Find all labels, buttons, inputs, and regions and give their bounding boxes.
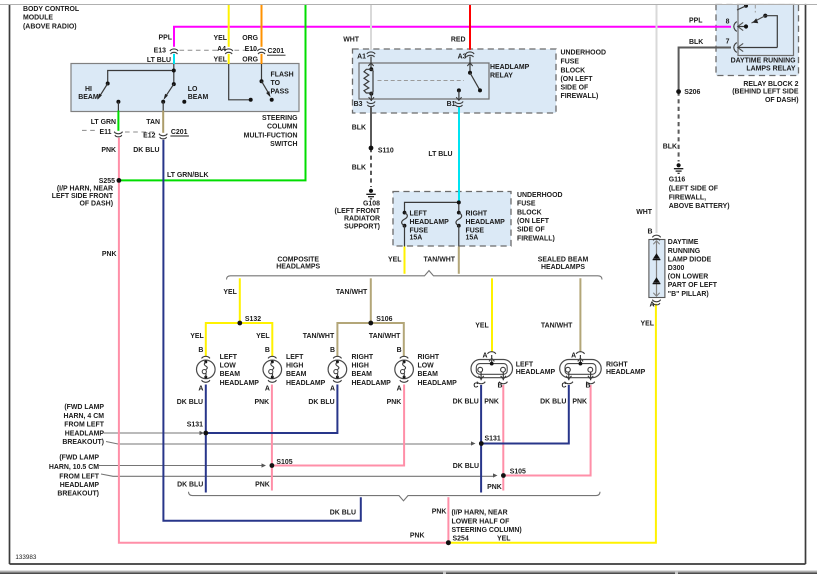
headlamp relay B1 contact and lead (456, 88, 461, 100)
svg-text:LAMP DIODE: LAMP DIODE (668, 256, 712, 263)
svg-text:YEL: YEL (641, 321, 655, 328)
svg-text:(BEHIND LEFT SIDE: (BEHIND LEFT SIDE (732, 89, 799, 96)
wire YEL S132 to left low and left high bulbs (206, 323, 272, 357)
splice S131 composite (203, 431, 208, 436)
svg-text:LOW: LOW (220, 363, 237, 370)
svg-text:E13: E13 (154, 48, 166, 55)
connector A1 (367, 52, 376, 57)
right sealed beam headlamp (560, 352, 602, 384)
headlamp relay coil (364, 67, 373, 95)
wire TAN/WHT bracket to right sealed headlamp A (579, 278, 581, 352)
wire PPL from BCM to DRL relay pin 8 (174, 27, 731, 47)
svg-text:PNK: PNK (432, 509, 447, 516)
DRL relay top contact (cut off) (737, 4, 755, 13)
svg-text:FUSE: FUSE (466, 227, 485, 234)
svg-text:HEADLAMP: HEADLAMP (490, 64, 530, 71)
wire TAN/WHT S106 to right high and right low bulbs (337, 323, 403, 357)
svg-text:A: A (482, 352, 487, 359)
daytime running lamps relay inner box (738, 4, 794, 55)
splice S105 composite (270, 463, 275, 468)
composite/sealed group bracket (top) (227, 271, 603, 280)
headlamp relay inner box (359, 63, 489, 99)
svg-text:YEL: YEL (475, 322, 489, 329)
svg-text:(ON LEFT: (ON LEFT (517, 218, 550, 225)
headlamp relay switch arm (470, 73, 482, 93)
svg-text:E11: E11 (100, 129, 112, 136)
svg-text:UNDERHOOD: UNDERHOOD (517, 192, 562, 199)
splice S131 sealed (479, 441, 484, 446)
splice S206 (676, 89, 681, 94)
wire YEL S254 to diode A (450, 304, 656, 543)
svg-text:(LEFT FRONT: (LEFT FRONT (335, 208, 381, 215)
svg-text:LT BLU: LT BLU (147, 57, 171, 64)
flash-to-pass switch arm (262, 81, 274, 102)
harness pointer line to S131 (sealed) (106, 441, 476, 445)
svg-text:TAN/WHT: TAN/WHT (541, 322, 573, 329)
svg-text:D300: D300 (668, 265, 685, 272)
svg-text:S110: S110 (378, 148, 394, 155)
C201 dashed connector line (E13/A4/E10) (180, 49, 257, 51)
svg-text:C: C (561, 383, 566, 390)
svg-text:BLOCK: BLOCK (517, 209, 542, 216)
svg-text:PPL: PPL (159, 35, 173, 42)
wire PNK brace to S254 (447, 497, 449, 543)
svg-text:(ON LEFT: (ON LEFT (561, 76, 594, 83)
wire DK BLU E12 down right and up to brace (163, 140, 360, 521)
wire RED into relay A3 (469, 5, 471, 50)
svg-text:WHT: WHT (343, 37, 360, 44)
svg-text:G116: G116 (669, 177, 686, 184)
svg-text:RELAY: RELAY (490, 73, 513, 80)
left headlamp fuse 15A (402, 211, 408, 247)
svg-text:BLOCK: BLOCK (561, 67, 586, 74)
headlamp relay B3 lead (369, 94, 374, 101)
svg-text:ABOVE BATTERY): ABOVE BATTERY) (669, 203, 730, 210)
svg-text:BREAKOUT): BREAKOUT) (57, 490, 99, 497)
svg-text:LEFT: LEFT (286, 354, 304, 361)
svg-text:LEFT: LEFT (410, 211, 428, 218)
left low beam headlamp bulb (197, 356, 216, 382)
svg-text:HEADLAMP: HEADLAMP (65, 430, 105, 437)
svg-text:PNK: PNK (255, 482, 270, 489)
underhood fuse block (headlamp relay) dashed box (353, 49, 557, 113)
wire YEL A4 to switch box (228, 54, 230, 64)
svg-text:S254: S254 (453, 536, 469, 543)
svg-text:HEADLAMP: HEADLAMP (606, 369, 646, 376)
svg-text:FLASH: FLASH (271, 71, 294, 78)
harness pointer line to S105 (composite) (99, 463, 266, 467)
svg-text:RIGHT: RIGHT (418, 354, 440, 361)
connector diode A (652, 300, 660, 305)
wire PNK S105 to right sealed B (505, 385, 591, 476)
svg-text:BEAM: BEAM (418, 371, 439, 378)
wire PNK E11 to S255 to bottom to S254 (119, 138, 446, 543)
svg-text:A: A (265, 385, 270, 392)
svg-text:(LEFT SIDE OF: (LEFT SIDE OF (669, 186, 718, 193)
svg-text:PNK: PNK (101, 147, 116, 154)
connector E11 (114, 132, 123, 137)
svg-text:S106: S106 (376, 316, 392, 323)
svg-text:PASS: PASS (271, 88, 290, 95)
svg-text:S132: S132 (245, 316, 261, 323)
svg-text:TAN/WHT: TAN/WHT (336, 289, 368, 296)
svg-text:DK BLU: DK BLU (308, 399, 334, 406)
svg-text:OF DASH): OF DASH) (79, 201, 113, 208)
relay block 2 / daytime running lamps relay dashed box (716, 4, 799, 75)
svg-text:B: B (647, 228, 652, 235)
wire TAN/WHT bracket to S106 (370, 278, 372, 323)
svg-text:DK BLU: DK BLU (453, 463, 479, 470)
svg-text:B1: B1 (447, 101, 456, 108)
label C201 top (267, 48, 286, 55)
svg-text:HARN, 10.5 CM: HARN, 10.5 CM (49, 464, 99, 471)
svg-text:B: B (497, 383, 502, 390)
svg-text:HIGH: HIGH (286, 363, 303, 370)
headlamp relay A1 pin lead (368, 57, 373, 68)
svg-text:(ON LOWER: (ON LOWER (668, 274, 708, 281)
svg-text:RADIATOR: RADIATOR (344, 216, 380, 223)
wire BLK DRL pin7 to S206 (679, 48, 731, 92)
svg-text:DK BLU: DK BLU (330, 510, 356, 517)
svg-text:PNK: PNK (487, 484, 502, 491)
svg-text:S105: S105 (510, 469, 526, 476)
svg-text:15A: 15A (410, 235, 423, 242)
svg-text:LT GRN: LT GRN (91, 119, 116, 126)
svg-text:A4: A4 (217, 46, 226, 53)
wire WHT into relay A1 (370, 5, 372, 50)
daytime running lamp diode D300 box (649, 240, 665, 298)
svg-text:DK BLU: DK BLU (133, 147, 159, 154)
wire YEL fuse to bracket (404, 247, 406, 274)
svg-text:RIGHT: RIGHT (606, 362, 628, 369)
wire LT GRN/BLK from top to S255 (120, 5, 306, 180)
connector B3 (367, 102, 376, 107)
svg-text:FIREWALL): FIREWALL) (561, 93, 599, 100)
wire LT BLU E13 to switch box (173, 54, 175, 64)
svg-text:B: B (397, 347, 402, 354)
svg-text:COLUMN: COLUMN (267, 124, 297, 131)
flash-to-pass pivot from ORG (260, 64, 264, 83)
svg-text:SWITCH: SWITCH (270, 141, 297, 148)
svg-text:HI: HI (85, 86, 92, 93)
wire YEL into A4 (228, 5, 230, 47)
wire DK BLU left low beam to S131 to brace (205, 385, 207, 493)
DRL relay internal switch (744, 14, 777, 48)
svg-text:A: A (571, 352, 576, 359)
svg-text:LOWER HALF OF: LOWER HALF OF (452, 518, 510, 525)
steering column multi-function switch box (71, 64, 299, 112)
viewport top boundary line (0, 0, 817, 5)
svg-text:BREAKOUT): BREAKOUT) (62, 439, 104, 446)
ground G108 (366, 189, 375, 199)
wire BLK dashed S206 to G116 (678, 92, 680, 162)
svg-text:RIGHT: RIGHT (466, 211, 488, 218)
svg-text:LT GRN/BLK: LT GRN/BLK (167, 172, 209, 179)
svg-text:8: 8 (726, 19, 730, 26)
svg-text:YEL: YEL (223, 289, 237, 296)
headlamp relay A3 pin lead (467, 57, 472, 75)
connector A3 (466, 52, 475, 57)
fuse block feed junction (405, 200, 461, 211)
svg-text:YEL: YEL (214, 57, 228, 64)
lo beam unused contact (182, 100, 186, 104)
underhood fuse block (fuses) dashed box (393, 192, 511, 247)
diode D300 internals (653, 241, 661, 296)
wire DK BLU S131 to right high beam (207, 385, 338, 434)
svg-text:BEAM: BEAM (188, 94, 209, 101)
svg-text:S206: S206 (684, 89, 700, 96)
svg-text:E12: E12 (143, 133, 155, 140)
svg-text:HEADLAMPS: HEADLAMPS (276, 263, 320, 270)
svg-text:LT BLU: LT BLU (428, 151, 452, 158)
wire YEL bracket to left sealed headlamp A (491, 278, 493, 352)
svg-text:SUPPORT): SUPPORT) (344, 223, 380, 230)
svg-text:HEADLAMP: HEADLAMP (220, 380, 260, 387)
svg-text:HEADLAMP: HEADLAMP (352, 380, 392, 387)
svg-text:RUNNING: RUNNING (668, 248, 700, 255)
svg-text:B: B (585, 383, 590, 390)
svg-text:B: B (265, 347, 270, 354)
svg-text:BEAM: BEAM (220, 371, 241, 378)
svg-text:RIGHT: RIGHT (352, 354, 374, 361)
svg-text:G108: G108 (363, 200, 380, 207)
flash-to-pass yellow feed path (229, 64, 253, 102)
svg-text:TAN/WHT: TAN/WHT (303, 333, 335, 340)
svg-text:B: B (330, 347, 335, 354)
hi beam switch pivot (106, 82, 110, 86)
svg-text:HEADLAMP: HEADLAMP (60, 482, 100, 489)
svg-text:A: A (649, 301, 654, 308)
window bottom bar (0, 570, 817, 574)
svg-text:LEFT: LEFT (516, 362, 534, 369)
wire BLK dashed S110 to G108 (370, 148, 372, 187)
svg-text:UNDERHOOD: UNDERHOOD (561, 49, 606, 56)
svg-text:PNK: PNK (572, 398, 587, 405)
svg-text:SIDE OF: SIDE OF (561, 84, 589, 91)
svg-text:ORG: ORG (242, 57, 258, 64)
svg-text:HIGH: HIGH (352, 363, 369, 370)
connector B1 (455, 102, 464, 107)
svg-text:TAN: TAN (146, 119, 160, 126)
wire BLK relay B3 to S110 (370, 107, 372, 148)
svg-text:HEADLAMPS: HEADLAMPS (541, 264, 585, 271)
connector E10 (257, 49, 265, 54)
svg-text:YEL: YEL (388, 256, 402, 263)
right low beam headlamp bulb (395, 356, 414, 382)
harness pointer line to S105 (sealed) (101, 473, 498, 477)
svg-text:FUSE: FUSE (561, 58, 580, 65)
svg-text:LO: LO (188, 86, 198, 93)
svg-text:RED: RED (451, 37, 466, 44)
wire LT BLU relay B1 to fuse block (458, 107, 460, 202)
wire DK BLU S131 to right sealed C (483, 385, 569, 444)
svg-text:WHT: WHT (636, 209, 653, 216)
wire PNK S105 to right low beam (273, 385, 404, 466)
splice S106 (368, 321, 373, 326)
connector A4 (225, 49, 233, 54)
svg-text:C: C (473, 383, 478, 390)
svg-text:LAMPS RELAY: LAMPS RELAY (746, 65, 795, 72)
svg-text:PNK: PNK (387, 399, 402, 406)
svg-text:BEAM: BEAM (78, 94, 99, 101)
svg-text:BLK: BLK (689, 39, 703, 46)
svg-text:C201: C201 (171, 129, 188, 136)
DRL relay pin 8 connector (734, 22, 746, 32)
node switch feed junction (172, 69, 176, 73)
splice S254 (446, 540, 451, 545)
svg-text:B: B (198, 347, 203, 354)
svg-text:DK BLU: DK BLU (177, 399, 203, 406)
svg-text:YEL: YEL (497, 536, 511, 543)
wire TAN/WHT fuse to bracket (458, 247, 460, 274)
svg-text:SIDE OF: SIDE OF (517, 227, 545, 234)
svg-text:15A: 15A (466, 235, 479, 242)
left high beam headlamp bulb (263, 356, 282, 382)
svg-text:BEAM: BEAM (286, 371, 307, 378)
lo beam switch pivot (172, 82, 176, 86)
hi beam switch arm (98, 84, 108, 100)
svg-text:PNK: PNK (254, 399, 269, 406)
lo beam switch arm (164, 84, 174, 100)
wire PNK left high beam to S105 to brace (271, 385, 273, 491)
right high beam headlamp bulb (328, 356, 347, 382)
label C201 bottom (170, 129, 189, 136)
svg-text:HEADLAMP: HEADLAMP (286, 380, 326, 387)
splice S255 (117, 178, 122, 183)
svg-text:C201: C201 (268, 48, 285, 55)
svg-text:A: A (397, 385, 402, 392)
wire YEL bracket to S132 (239, 278, 241, 323)
svg-text:HEADLAMP: HEADLAMP (418, 380, 458, 387)
lo beam output contact (161, 100, 165, 111)
splice S105 sealed (501, 473, 506, 478)
svg-text:7: 7 (726, 39, 730, 46)
wire DK BLU left sealed C to S131 to brace (480, 385, 482, 493)
splice S132 (237, 321, 242, 326)
svg-text:"B" PILLAR): "B" PILLAR) (668, 291, 709, 298)
svg-text:YEL: YEL (190, 333, 204, 340)
DRL relay pin 7 connector (734, 43, 777, 53)
svg-text:BEAM: BEAM (352, 371, 373, 378)
ground G116 (674, 163, 683, 173)
svg-text:E10: E10 (245, 46, 257, 53)
svg-text:BLK: BLK (663, 143, 677, 150)
svg-text:ORG: ORG (242, 35, 258, 42)
splice S110 (369, 146, 374, 151)
svg-text:TO: TO (271, 80, 281, 87)
connector diode B (652, 235, 660, 240)
svg-text:BODY CONTROL: BODY CONTROL (23, 6, 80, 13)
svg-text:STEERING COLUMN): STEERING COLUMN) (452, 527, 522, 534)
svg-text:FIREWALL): FIREWALL) (517, 235, 555, 242)
svg-text:(ABOVE RADIO): (ABOVE RADIO) (23, 23, 77, 30)
svg-text:FIREWALL,: FIREWALL, (669, 194, 706, 201)
svg-text:(FWD LAMP: (FWD LAMP (59, 454, 99, 461)
wire LT GRN switch to E11 (117, 111, 119, 131)
svg-text:DK BLU: DK BLU (453, 398, 479, 405)
svg-text:A1: A1 (357, 53, 366, 60)
svg-text:MODULE: MODULE (23, 15, 53, 22)
svg-text:HEADLAMP: HEADLAMP (466, 219, 506, 226)
relay coil to switch dashed link (378, 80, 465, 82)
svg-text:A3: A3 (458, 53, 467, 60)
svg-text:(I/P HARN, NEAR: (I/P HARN, NEAR (452, 510, 508, 517)
svg-text:PPL: PPL (689, 18, 703, 25)
svg-text:B3: B3 (354, 101, 363, 108)
svg-text:S131: S131 (187, 421, 203, 428)
connector E12 (159, 134, 168, 139)
hi beam output contact (116, 100, 120, 111)
harness pointer line to S131 (composite) (104, 431, 204, 435)
right headlamp fuse 15A (456, 211, 462, 247)
svg-text:LOW: LOW (418, 363, 435, 370)
wire PNK left sealed B to S105 to brace (502, 385, 504, 491)
label bulb names (220, 354, 260, 387)
svg-text:LEFT: LEFT (220, 354, 238, 361)
svg-text:STEERING: STEERING (262, 115, 297, 122)
svg-text:TAN/WHT: TAN/WHT (424, 256, 456, 263)
svg-text:BLK: BLK (352, 165, 366, 172)
svg-text:FUSE: FUSE (410, 227, 429, 234)
svg-text:133983: 133983 (15, 554, 37, 561)
wire ORG E10 to switch box (261, 54, 263, 64)
svg-text:YEL: YEL (214, 35, 228, 42)
svg-text:DK BLU: DK BLU (177, 482, 203, 489)
svg-text:(FWD LAMP: (FWD LAMP (64, 404, 104, 411)
svg-text:PNK: PNK (410, 533, 425, 540)
svg-text:DAYTIME: DAYTIME (668, 239, 699, 246)
svg-text:DAYTIME RUNNING: DAYTIME RUNNING (731, 58, 796, 65)
wire WHT to diode B (656, 5, 658, 233)
svg-text:PART OF LEFT: PART OF LEFT (668, 282, 718, 289)
svg-text:BLK: BLK (352, 125, 366, 132)
svg-text:FUSE: FUSE (517, 201, 536, 208)
connector E13 (170, 49, 178, 54)
svg-text:S255: S255 (99, 178, 115, 185)
svg-text:MULTI-FUCTION: MULTI-FUCTION (244, 132, 298, 139)
C201 dashed connector line (E11/E12) (82, 130, 156, 132)
svg-text:A: A (330, 385, 335, 392)
svg-text:HARN, 4 CM: HARN, 4 CM (64, 413, 105, 420)
svg-text:S105: S105 (276, 459, 292, 466)
svg-text:FROM LEFT: FROM LEFT (64, 422, 104, 429)
svg-text:A: A (198, 385, 203, 392)
ground group brace (bottom) (189, 492, 601, 501)
svg-text:PNK: PNK (102, 251, 117, 258)
svg-text:FROM LEFT: FROM LEFT (59, 473, 99, 480)
svg-text:YEL: YEL (256, 333, 270, 340)
svg-text:HEADLAMP: HEADLAMP (516, 369, 556, 376)
svg-text:HEADLAMP: HEADLAMP (410, 219, 450, 226)
svg-text:OF DASH): OF DASH) (765, 97, 799, 104)
svg-text:S131: S131 (485, 436, 501, 443)
wire TAN switch to E12 (162, 111, 164, 133)
svg-text:(I/P HARN, NEAR: (I/P HARN, NEAR (57, 185, 113, 192)
svg-text:DK BLU: DK BLU (540, 398, 566, 405)
svg-text:SEALED BEAM: SEALED BEAM (538, 257, 589, 264)
left sealed beam headlamp (471, 352, 513, 384)
multifunction switch internal feed from E13 (108, 64, 174, 84)
label sealed lamp names (516, 362, 556, 376)
svg-text:PNK: PNK (484, 398, 499, 405)
svg-text:RELAY BLOCK 2: RELAY BLOCK 2 (743, 81, 798, 88)
svg-text:LEFT SIDE FRONT: LEFT SIDE FRONT (52, 193, 114, 200)
wire ORG into E10 (261, 5, 263, 47)
svg-text:TAN/WHT: TAN/WHT (369, 333, 401, 340)
